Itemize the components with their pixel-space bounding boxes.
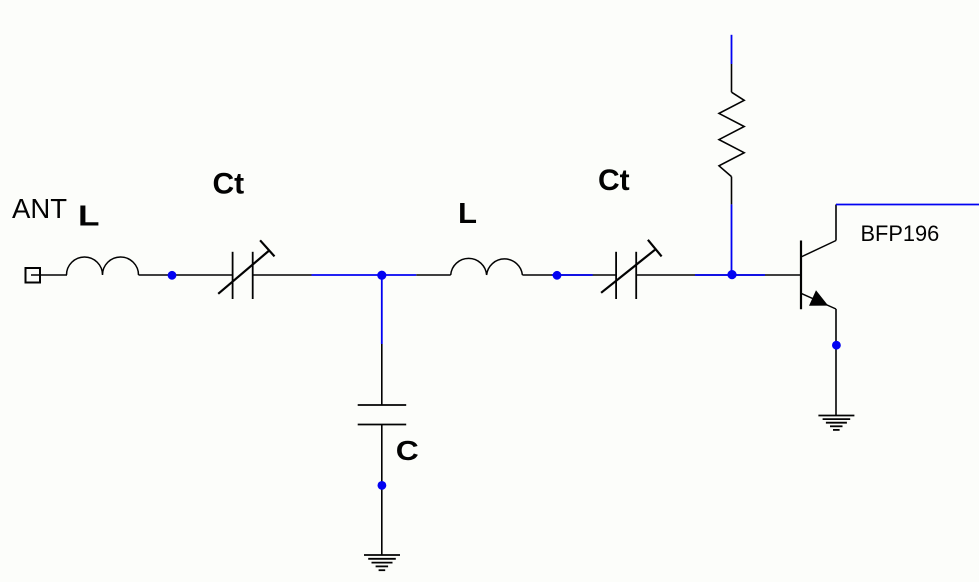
- svg-text:Ct: Ct: [598, 164, 630, 197]
- svg-text:Ct: Ct: [213, 168, 245, 201]
- svg-text:BFP196: BFP196: [861, 221, 940, 246]
- svg-text:L: L: [78, 201, 100, 233]
- svg-text:ANT: ANT: [12, 193, 67, 224]
- svg-text:L: L: [458, 198, 477, 230]
- svg-text:C: C: [396, 435, 419, 466]
